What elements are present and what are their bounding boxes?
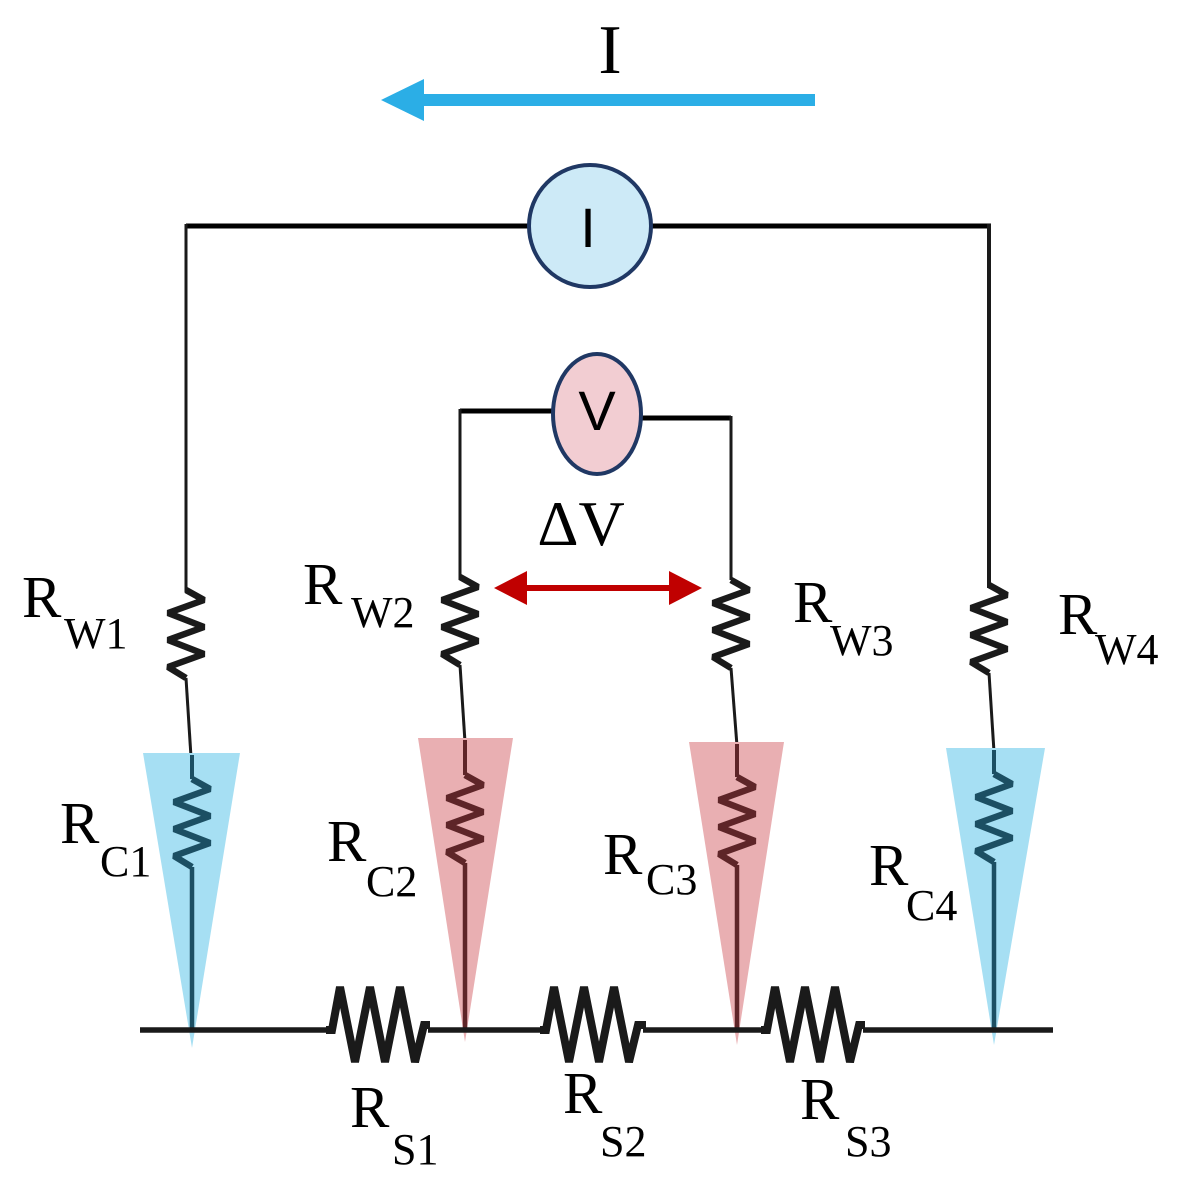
svg-text:R: R — [793, 569, 833, 635]
svg-text:W3: W3 — [830, 616, 894, 665]
svg-text:R: R — [22, 564, 62, 630]
svg-text:R: R — [60, 790, 100, 856]
svg-text:W2: W2 — [351, 588, 415, 637]
svg-text:C1: C1 — [100, 837, 151, 886]
svg-text:C3: C3 — [646, 855, 697, 904]
svg-text:C4: C4 — [906, 881, 957, 930]
svg-text:C2: C2 — [366, 857, 417, 906]
svg-text:R: R — [563, 1060, 603, 1126]
svg-text:R: R — [603, 821, 643, 887]
svg-text:S3: S3 — [845, 1117, 891, 1166]
svg-text:S1: S1 — [392, 1125, 438, 1174]
svg-text:W4: W4 — [1095, 625, 1159, 674]
svg-text:I: I — [598, 12, 621, 89]
svg-text:R: R — [327, 808, 367, 874]
svg-text:S2: S2 — [600, 1117, 646, 1166]
svg-text:V: V — [578, 379, 616, 442]
svg-text:R: R — [350, 1074, 390, 1140]
svg-text:R: R — [869, 832, 909, 898]
svg-text:R: R — [303, 551, 343, 617]
svg-text:ΔV: ΔV — [537, 488, 624, 559]
svg-text:W1: W1 — [64, 609, 128, 658]
svg-text:R: R — [800, 1066, 840, 1132]
svg-text:R: R — [1058, 581, 1098, 647]
svg-text:I: I — [580, 196, 596, 259]
